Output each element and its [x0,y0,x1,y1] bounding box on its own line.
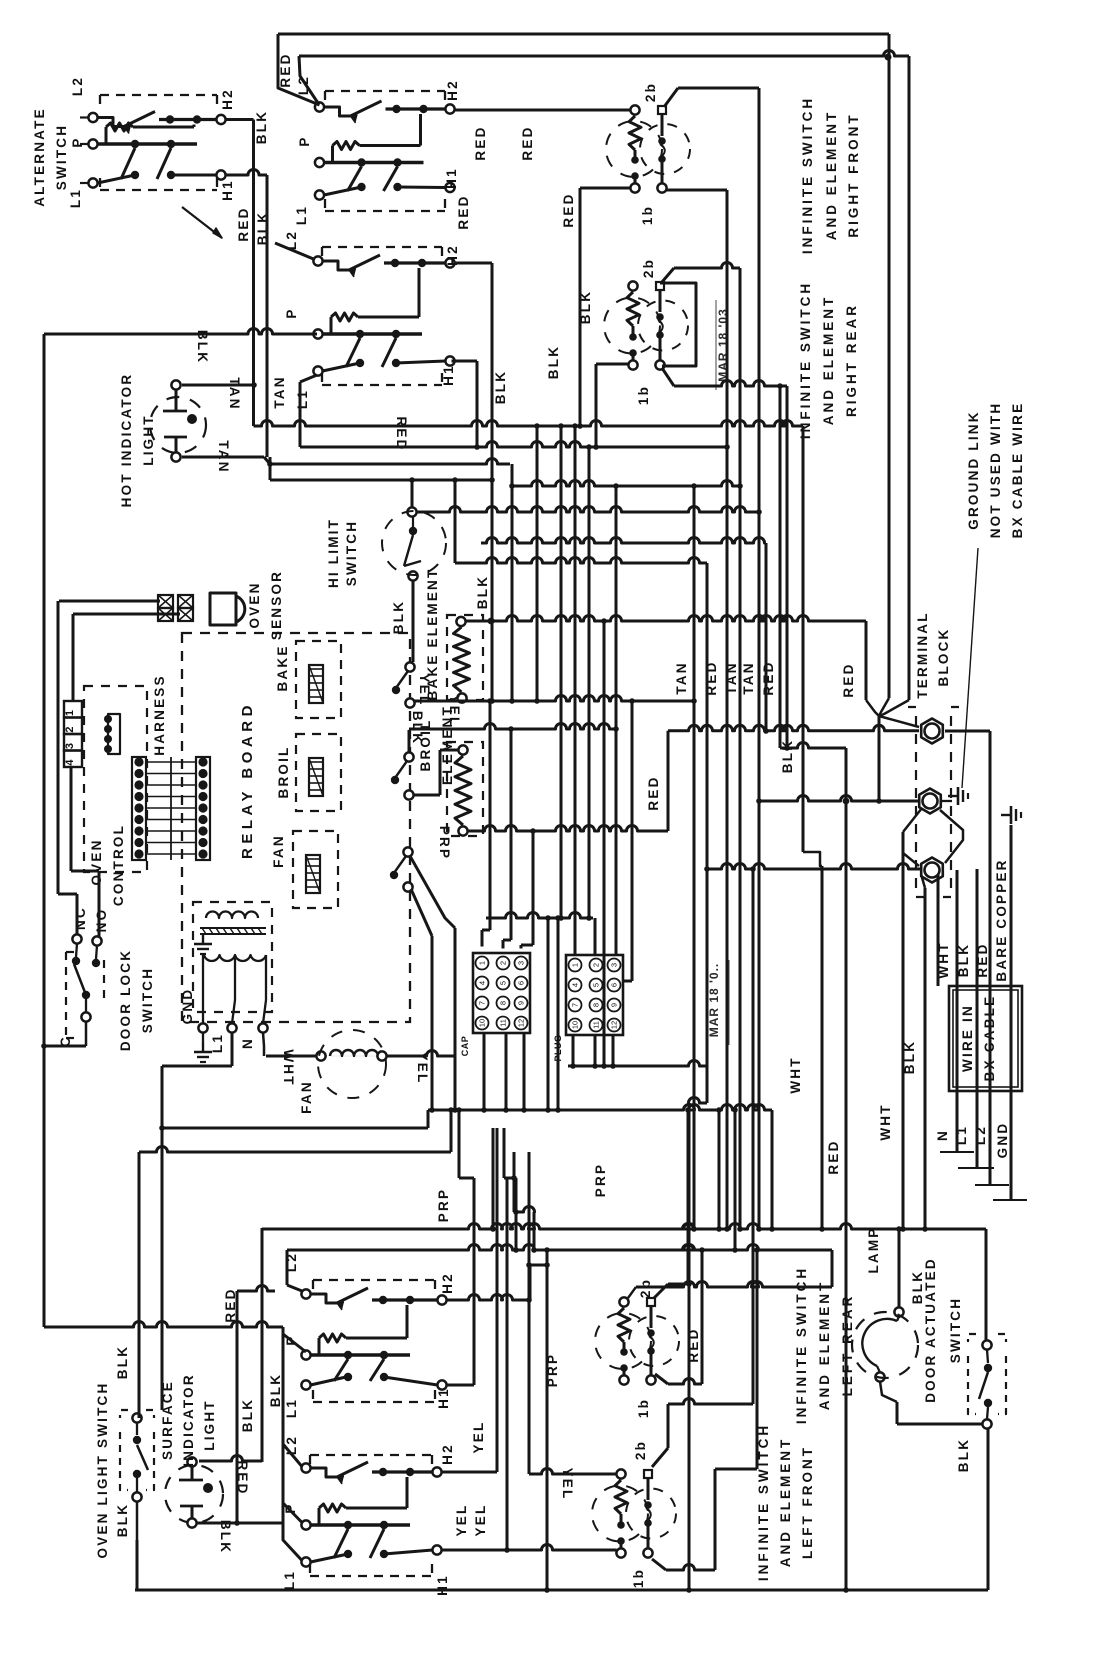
surface indicator light dashed lens [165,1465,223,1523]
svg-text:TAN: TAN [227,377,242,410]
infinite switch left front terminal P [301,1520,310,1529]
svg-text:2: 2 [592,963,601,967]
terminal 1 [921,719,943,744]
svg-text:5: 5 [592,983,601,987]
svg-text:NOT USED WITH: NOT USED WITH [988,402,1003,539]
svg-text:3: 3 [517,961,526,965]
svg-text:L1: L1 [282,1570,297,1590]
svg-text:H1: H1 [444,167,459,189]
svg-text:SWITCH: SWITCH [140,967,155,1033]
infinite switch right rear dashed body [322,246,442,248]
svg-text:TAN: TAN [272,375,287,408]
alternate switch pilot resistor [105,127,108,144]
svg-text:RIGHT FRONT: RIGHT FRONT [846,112,861,237]
svg-text:1b: 1b [636,1398,651,1418]
svg-text:L2: L2 [973,1125,988,1145]
svg-text:L1: L1 [284,1398,299,1418]
surface indicator light top terminal [187,1457,196,1466]
svg-text:4: 4 [571,983,580,987]
oven control connector 4321 [64,701,82,718]
svg-text:4: 4 [478,981,487,985]
svg-text:CAP: CAP [460,1036,470,1057]
wire junction flares [41,1043,47,1049]
bake element (oven) [447,615,483,700]
svg-text:AND ELEMENT: AND ELEMENT [817,1280,832,1411]
infinite switch right front terminal P [315,158,324,167]
svg-text:AND ELEMENT: AND ELEMENT [778,1437,793,1568]
junction of frame lines [885,54,892,61]
transformer GND terminal [198,1023,207,1032]
svg-text:H1: H1 [441,364,456,386]
oven light switch dashed [146,1410,154,1418]
wire horizontal buses with crossover hops [278,33,889,36]
alternate switch open stubs [80,116,89,118]
svg-text:RIGHT REAR: RIGHT REAR [844,303,859,417]
svg-text:OVEN: OVEN [89,838,104,885]
svg-text:SENSOR: SENSOR [269,570,284,640]
svg-text:11: 11 [499,1019,508,1027]
svg-text:YEL: YEL [447,695,462,728]
infinite switch left front terminal L2 [301,1463,310,1472]
alternate switch lower contacts [131,171,139,179]
svg-text:P: P [70,136,85,147]
svg-text:BLK: BLK [546,345,561,379]
wire vertical runs [888,34,891,698]
svg-text:PRP: PRP [436,1188,451,1222]
svg-text:1b: 1b [636,385,651,405]
hot indicator light bottom terminal [171,452,180,461]
earth ground symbol [194,1042,212,1062]
broil relay dashed cell [296,734,341,811]
svg-text:PRP: PRP [593,1163,608,1197]
right rear surface element heating element [628,281,637,290]
oven control dashed box [84,686,147,872]
svg-text:GROUND LINK: GROUND LINK [966,410,981,529]
fan relay dashed cell [293,831,338,908]
svg-text:BLK: BLK [493,370,508,404]
svg-text:RED: RED [761,660,776,695]
svg-text:1: 1 [571,963,580,967]
svg-text:L1: L1 [210,1033,225,1053]
svg-text:RED: RED [841,662,856,697]
svg-text:10: 10 [478,1019,487,1027]
alternate switch P bus bar [98,142,198,145]
svg-text:9: 9 [517,1001,526,1005]
svg-text:TERMINAL: TERMINAL [915,611,930,698]
svg-text:H2: H2 [440,1443,455,1465]
svg-text:YEL: YEL [471,1421,486,1454]
svg-text:HARNESS: HARNESS [152,674,167,755]
infinite switch left rear lower contacts [344,1373,352,1381]
svg-text:2: 2 [499,961,508,965]
infinite switch left front terminal L1 [301,1557,310,1566]
terminal 2 [919,789,941,814]
infinite switch left front lower contacts [344,1550,352,1558]
svg-text:HI LIMIT: HI LIMIT [326,518,341,588]
svg-text:RED: RED [520,125,535,160]
hot indicator light dashed lens [150,397,206,453]
bake relay contact [405,662,414,671]
svg-text:8: 8 [499,1001,508,1005]
fan motor [316,1051,325,1060]
svg-text:TAN: TAN [674,661,689,694]
harness connector strips [132,757,146,860]
svg-text:H2: H2 [445,79,460,101]
svg-text:L2: L2 [296,75,311,95]
svg-text:BLK: BLK [218,1520,233,1554]
svg-text:L1: L1 [295,389,310,409]
svg-text:DOOR LOCK: DOOR LOCK [118,949,133,1051]
svg-text:1: 1 [64,710,76,716]
svg-text:BLK: BLK [268,1373,283,1407]
infinite switch left rear terminal L2 [301,1289,310,1298]
infinite switch right rear P bus bar [323,332,423,335]
svg-text:5: 5 [499,981,508,985]
svg-text:GND: GND [180,988,195,1025]
svg-text:RED: RED [473,125,488,160]
infinite switch left rear terminal P [301,1350,310,1359]
infinite switch right front terminal H1 [445,183,454,192]
svg-text:BX CABLE WIRE: BX CABLE WIRE [1010,402,1025,539]
svg-text:INFINITE SWITCH: INFINITE SWITCH [794,1266,809,1424]
door lock switch dashed box [65,952,67,1038]
svg-text:1b: 1b [640,205,655,225]
svg-text:2b: 2b [633,1440,648,1460]
oven sensor bulb [210,593,236,625]
transformer N terminal [258,1023,267,1032]
infinite switch right rear terminal H2 [445,258,454,267]
bake relay coil [309,665,323,703]
svg-text:OVEN LIGHT SWITCH: OVEN LIGHT SWITCH [95,1382,110,1559]
alternate switch terminal H2 [216,115,225,124]
infinite switch right front contact blade L2-H2 [324,107,351,116]
infinite switch left rear contact blade L2-H2 [311,1294,338,1303]
hot indicator light top terminal [171,380,180,389]
svg-text:1b: 1b [631,1568,646,1588]
svg-text:MAR 18 '0..: MAR 18 '0.. [707,963,721,1038]
svg-text:L1: L1 [68,188,83,208]
svg-text:FAN: FAN [271,834,286,868]
svg-text:RED: RED [561,192,576,227]
earth ground symbol [1001,806,1021,824]
svg-text:L1: L1 [294,205,309,225]
alternate switch terminal L1 [88,178,97,187]
svg-text:WHT: WHT [878,1103,893,1140]
svg-text:6: 6 [610,983,619,987]
svg-text:INFINITE SWITCH: INFINITE SWITCH [798,281,813,439]
door actuated switch dashed [968,1334,976,1342]
svg-text:WIRE IN: WIRE IN [960,1004,975,1072]
svg-text:YEL: YEL [473,1504,488,1537]
broil element (oven) [447,742,483,836]
infinite switch right front terminal H2 [445,104,454,113]
svg-text:AND ELEMENT: AND ELEMENT [821,295,836,426]
svg-text:BLOCK: BLOCK [936,628,951,687]
infinite switch left rear pilot resistor [318,1338,321,1355]
svg-text:BLK: BLK [956,1438,971,1472]
earth ground symbol [194,934,212,954]
surface indicator light filament dot [203,1483,213,1493]
earth ground symbol [948,787,968,805]
svg-text:LEFT FRONT: LEFT FRONT [800,1445,815,1559]
svg-text:BLK: BLK [254,110,269,144]
svg-text:12: 12 [517,1019,526,1027]
oven lamp [894,1307,903,1316]
svg-text:SWITCH: SWITCH [54,124,69,190]
wire in BX cable box [949,986,1022,1091]
svg-text:INFINITE SWITCH: INFINITE SWITCH [800,96,815,254]
svg-text:N: N [240,1037,255,1049]
cap connector [473,953,530,1033]
broil relay coil [309,758,323,796]
svg-text:AND ELEMENT: AND ELEMENT [824,110,839,241]
svg-text:H1: H1 [220,179,235,201]
svg-text:8: 8 [592,1003,601,1007]
bake relay dashed cell [296,641,341,718]
infinite switch right rear terminal H1 [445,356,454,365]
svg-text:YEL: YEL [560,1468,575,1501]
svg-text:BLK: BLK [115,1345,130,1379]
infinite switch right front pilot resistor [331,146,334,163]
svg-text:LIGHT: LIGHT [202,1399,217,1451]
svg-text:2b: 2b [643,82,658,102]
svg-text:L2: L2 [70,76,85,96]
plug connector [566,955,623,1035]
fan relay contact [403,847,412,856]
infinite switch left rear terminal L1 [301,1380,310,1389]
svg-text:DOOR ACTUATED: DOOR ACTUATED [923,1257,938,1403]
BX wire end ticks [940,1151,974,1153]
transformer secondary coil [204,955,266,961]
transformer L1 terminal [227,1023,236,1032]
left front surface element limiter switch [644,1470,652,1478]
svg-text:BLK: BLK [910,1270,925,1304]
svg-text:HOT INDICATOR: HOT INDICATOR [119,373,134,508]
svg-text:FAN: FAN [299,1080,314,1114]
svg-text:P: P [284,307,299,318]
svg-text:H2: H2 [220,88,235,110]
alternate switch terminal L2 [88,113,97,122]
svg-text:LAMP: LAMP [866,1226,881,1273]
svg-text:RED: RED [236,206,251,241]
svg-text:BROIL: BROIL [276,746,291,799]
svg-text:H1: H1 [435,1574,450,1596]
svg-text:RED: RED [456,194,471,229]
svg-text:1: 1 [478,961,487,965]
right rear surface element limiter switch [656,282,664,290]
svg-text:12: 12 [610,1021,619,1029]
right rear limiter solid box [660,283,696,366]
svg-text:INDICATOR: INDICATOR [181,1373,196,1467]
door lock switch terminals [72,934,81,943]
svg-text:3: 3 [64,743,76,749]
transformer dashed box [193,902,272,1012]
right front surface element limiter switch [658,106,666,114]
infinite switch left rear P bus bar [311,1353,411,1356]
left rear surface element heating element [619,1297,628,1306]
svg-text:BLK: BLK [475,575,490,609]
infinite switch right front terminal L2 [315,102,324,111]
svg-text:BLK: BLK [115,1503,130,1537]
svg-text:RED: RED [646,775,661,810]
svg-text:RED: RED [278,52,293,87]
alternate switch terminal P [88,139,97,148]
alternate switch pointer arrow [213,228,222,238]
alternate switch terminal H1 [216,170,225,179]
svg-text:CONTROL: CONTROL [111,824,126,906]
svg-text:OVEN: OVEN [247,581,262,628]
infinite switch left rear terminal H2 [437,1295,446,1304]
svg-text:4: 4 [64,759,76,766]
svg-text:7: 7 [571,1003,580,1007]
svg-text:PRP: PRP [437,826,452,860]
svg-text:LIGHT: LIGHT [141,414,156,466]
svg-text:SWITCH: SWITCH [344,520,359,586]
svg-text:9: 9 [610,1003,619,1007]
svg-text:N: N [935,1129,950,1141]
svg-text:BLK: BLK [391,600,406,634]
oven light switch [132,1413,141,1422]
svg-text:ALTERNATE: ALTERNATE [32,107,47,207]
svg-text:RED: RED [826,1139,841,1174]
infinite switch left front pilot resistor [318,1508,321,1525]
transformer primary coil [206,912,258,919]
door actuated switch [982,1340,991,1349]
hot indicator light filament dot [187,414,197,424]
svg-text:P: P [297,135,312,146]
bake element top BLK wire [488,618,495,625]
relay board dashed enclosure [182,633,410,1022]
right front surface element heating element [630,105,639,114]
svg-text:H2: H2 [440,1272,455,1294]
infinite switch left front terminal H1 [432,1545,441,1554]
svg-text:SWITCH: SWITCH [948,1297,963,1363]
svg-text:TAN: TAN [741,661,756,694]
svg-text:2: 2 [64,726,76,732]
infinite switch left front terminal H2 [432,1467,441,1476]
svg-text:GND: GND [995,1122,1010,1159]
infinite switch left front contact blade L2-H2 [311,1468,338,1477]
svg-text:BLK: BLK [240,1398,255,1432]
oven sensor connector [158,595,173,608]
svg-text:BAKE: BAKE [275,644,290,691]
infinite switch right front terminal L1 [315,190,324,199]
svg-text:NC: NC [73,906,88,930]
terminal 3 [921,858,943,883]
left rear surface element limiter switch [647,1298,655,1306]
fan relay coil [306,855,320,893]
svg-text:BARE COPPER: BARE COPPER [994,858,1009,981]
infinite switch right front lower contacts [357,183,365,191]
infinite switch right rear pilot resistor [330,317,333,334]
infinite switch right rear lower contacts [356,359,364,367]
infinite switch right rear contact blade L2-H2 [323,261,350,270]
svg-text:NO: NO [94,908,109,933]
oven control small connector [108,714,120,754]
svg-text:6: 6 [517,981,526,985]
infinite switch right rear terminal L1 [313,366,322,375]
hi limit switch [407,507,416,516]
svg-text:3: 3 [610,963,619,967]
infinite switch right front dashed body [325,90,445,92]
broil relay contact [404,752,413,761]
svg-text:2b: 2b [641,258,656,278]
svg-text:11: 11 [592,1021,601,1029]
svg-text:WHT: WHT [788,1056,803,1093]
svg-text:7: 7 [478,1001,487,1005]
alternate switch contact blade L2-H2 [98,118,125,127]
svg-text:RELAY BOARD: RELAY BOARD [239,701,256,859]
surface indicator light bottom terminal [187,1518,196,1527]
svg-text:YEL: YEL [454,1504,469,1537]
infinite switch left rear dashed body [313,1279,435,1281]
alternate switch dashed body [100,94,217,96]
terminal block dashed outline [915,716,917,893]
wire polylines [278,34,320,105]
bus y447 drop [843,798,850,805]
transformer core [200,927,266,929]
svg-text:H1: H1 [436,1387,451,1409]
infinite switch right front P bus bar [324,161,424,164]
infinite switch right rear terminal L2 [313,256,322,265]
left front surface element heating element [616,1469,625,1478]
infinite switch right rear terminal P [313,329,322,338]
svg-text:10: 10 [571,1021,580,1029]
infinite switch left rear terminal H1 [437,1380,446,1389]
infinite switch left front P bus bar [311,1523,411,1526]
infinite switch left front dashed body [310,1454,432,1456]
